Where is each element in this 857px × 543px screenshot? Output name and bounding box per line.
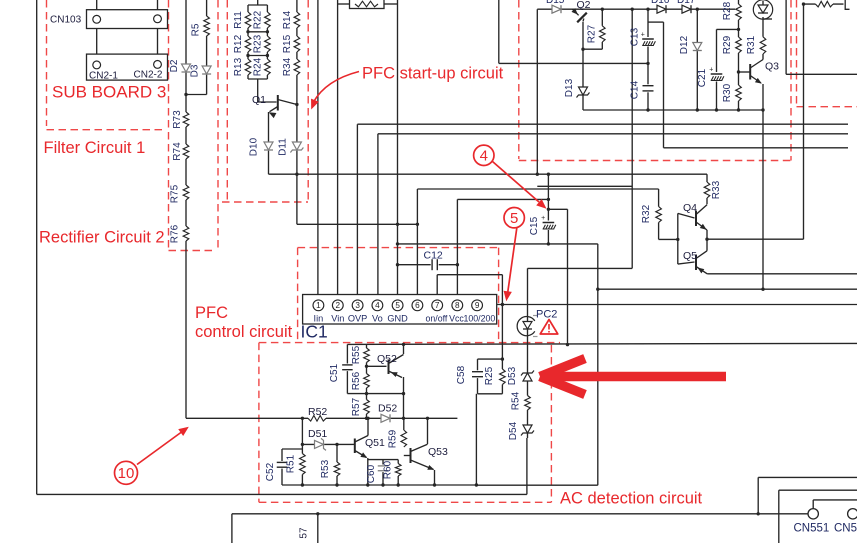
dashed PFC start-up box left edge: [226, 0, 228, 202]
node pin8 junction on C15 line: [547, 198, 550, 201]
svg-text:R33: R33: [711, 180, 722, 199]
svg-text:100/200: 100/200: [464, 314, 496, 324]
resistor R74: [183, 144, 190, 159]
dashed AC detection box bottom edge: [259, 501, 552, 503]
transistor Q4: [695, 211, 697, 227]
wire pin6 horizontal y=189 to R32: [417, 188, 658, 190]
resistor R5: [203, 16, 210, 36]
svg-text:PFC: PFC: [195, 304, 228, 322]
dashed far-right box left edge: [796, 0, 798, 107]
svg-text:R51: R51: [286, 454, 297, 473]
wire C21 vertical x=716.5: [716, 29, 718, 110]
svg-text:C60: C60: [366, 464, 377, 483]
wire rail r1 y=110: [583, 109, 763, 111]
svg-text:Vo: Vo: [372, 314, 383, 324]
dashed box Filter Circuit right edge: [168, 0, 170, 250]
dashed top-right box bottom edge: [519, 160, 791, 162]
svg-text:7: 7: [435, 301, 440, 310]
svg-text:+: +: [709, 66, 713, 73]
wire pin8 horizontal y=199: [457, 198, 548, 200]
node pin7/pin9 cross junction: [501, 303, 504, 306]
svg-text:5: 5: [395, 301, 400, 310]
svg-text:+: +: [541, 215, 545, 222]
wire CN103 to CN2 links: [96, 23, 98, 61]
svg-text:R60: R60: [383, 460, 394, 479]
svg-text:D53: D53: [507, 366, 518, 385]
wire C12 lead: [398, 264, 458, 266]
wire pin7 horizontal y=275: [437, 274, 502, 276]
resistor R76: [183, 226, 190, 241]
wire bottom connector horizontal y=514.5: [232, 513, 808, 515]
wire R28 jog to C21: [717, 28, 739, 30]
svg-text:IC1: IC1: [301, 322, 328, 342]
svg-text:5: 5: [510, 210, 518, 227]
wire vertical bus pin6: [416, 189, 418, 300]
wire mid horizontal y=186: [537, 185, 632, 187]
svg-text:R34: R34: [282, 57, 293, 76]
resistor R11: [245, 12, 252, 28]
svg-text:R55: R55: [351, 345, 362, 364]
svg-text:R74: R74: [172, 142, 183, 161]
transistor Q53: [410, 448, 412, 463]
dashed PFC start-up bottom edge: [222, 201, 308, 203]
wire Q53 collector riser: [427, 418, 429, 444]
wire bottom long horizontal to AC circuit: [37, 493, 527, 495]
wire AC bottom rail y=485: [282, 484, 476, 486]
resistor R13: [245, 59, 252, 75]
svg-text:PFC start-up circuit: PFC start-up circuit: [362, 65, 504, 83]
capacitor C52: [276, 461, 289, 469]
resistor R28: [735, 4, 742, 20]
svg-text:10: 10: [118, 465, 135, 482]
wire C13 right jog x=663: [648, 21, 664, 23]
svg-text:Vcc: Vcc: [449, 314, 464, 324]
svg-text:4: 4: [375, 301, 380, 310]
annotation circled 5 with arrow: [504, 208, 524, 228]
wire vertical bus pin8: [456, 199, 458, 300]
capacitor C15 electrolytic: [541, 221, 555, 231]
svg-text:6: 6: [415, 301, 420, 310]
pin 1 of IC1: [313, 300, 324, 311]
pin 5 of IC1: [392, 300, 403, 311]
wire Q52 emitter drop: [403, 377, 405, 418]
svg-text:CN103: CN103: [50, 15, 82, 26]
wire C13/C14 vertical x=648: [647, 9, 649, 110]
wire C52 leg: [281, 449, 283, 485]
wire vertical x=598 C15 branch down: [597, 244, 599, 485]
svg-text:D12: D12: [679, 35, 690, 54]
svg-text:CN551: CN551: [794, 523, 830, 535]
svg-text:R25: R25: [484, 366, 495, 385]
node D2/D3 junction: [184, 93, 187, 96]
diode D11 zener: [292, 142, 301, 150]
svg-text:Filter Circuit 1: Filter Circuit 1: [44, 139, 146, 157]
svg-text:R54: R54: [511, 391, 522, 410]
svg-text:C21: C21: [697, 68, 708, 87]
resistor R23: [264, 36, 271, 52]
wire PC2 vertical: [527, 268, 529, 438]
svg-text:R12: R12: [233, 34, 244, 53]
resistor R57: [363, 400, 370, 415]
svg-text:R53: R53: [320, 459, 331, 478]
diode D15 gray: [552, 5, 561, 13]
wire y=418 horizontal to AC detection: [186, 417, 457, 419]
pin 7 of IC1: [432, 300, 443, 311]
wire rail r3 y=134: [378, 133, 848, 135]
big red arrow pointing at D53: [540, 359, 585, 377]
diode D54 zener: [523, 425, 532, 433]
transistor Q3: [749, 64, 751, 80]
diode D16: [657, 5, 666, 13]
svg-text:R22: R22: [253, 10, 264, 29]
wire Q1 emitter down: [268, 112, 270, 174]
svg-text:C14: C14: [630, 80, 641, 99]
svg-text:R11: R11: [233, 11, 244, 29]
svg-text:C51: C51: [329, 363, 340, 382]
wire D51 node vertical x=302.4: [301, 418, 303, 485]
svg-text:8: 8: [455, 301, 460, 310]
resistor R22: [264, 12, 271, 28]
connector CN103 box: [87, 10, 168, 29]
wire vertical bus pin3: [356, 124, 358, 300]
svg-text:2: 2: [336, 301, 341, 310]
svg-text:Q53: Q53: [428, 446, 448, 458]
resistor R12: [245, 36, 252, 52]
svg-text:C12: C12: [424, 250, 443, 262]
diode D13 zener: [579, 87, 588, 95]
wire bottom box verticals: [231, 514, 233, 543]
svg-text:3: 3: [355, 301, 360, 310]
wire LED/R31 vertical x=763: [762, 19, 764, 60]
diode D2: [182, 64, 191, 72]
svg-text:R15: R15: [282, 34, 293, 53]
svg-text:on/off: on/off: [425, 314, 447, 324]
resistor R34: [293, 59, 300, 75]
wire D3/R5 branch vertical: [206, 0, 208, 88]
resistor R75: [183, 185, 190, 200]
wire C58 left leg down to rail: [475, 394, 477, 485]
svg-text:CN5: CN5: [834, 523, 857, 535]
wire Q4 collector/R33: [706, 174, 708, 204]
wire vertical x=567 down to AC rail: [567, 209, 569, 344]
svg-text:R31: R31: [746, 35, 757, 54]
wire Q4/Q5 base vertical: [677, 213, 679, 264]
wire Q5 emitter to y=274 rail: [707, 273, 857, 275]
svg-text:OVP: OVP: [348, 314, 367, 324]
svg-text:R59: R59: [388, 429, 399, 448]
wire R53 vertical: [336, 444, 338, 485]
svg-text:R14: R14: [282, 10, 293, 29]
dashed box Rectifier bottom edge: [169, 250, 215, 252]
svg-text:R52: R52: [308, 406, 327, 418]
svg-text:4: 4: [480, 148, 488, 165]
wire ground rail y=174: [269, 173, 708, 175]
pin 9 of IC1: [472, 300, 483, 311]
wire R55/R56/R57 vertical: [366, 344, 368, 418]
resistor R27: [599, 26, 606, 42]
capacitor C58: [471, 370, 484, 378]
diode D12 gray: [693, 43, 702, 51]
wire pin9 horizontal y=304.5 to right edge: [482, 304, 857, 306]
diode D10: [264, 142, 273, 150]
wire Q52 collector riser: [403, 344, 405, 354]
svg-text:CN2-2: CN2-2: [134, 70, 163, 81]
wire y=289 horizontal to right edge: [598, 288, 857, 290]
wire top-right resistor feed x=803.5: [803, 4, 805, 239]
wire C58 bracket: [501, 359, 503, 394]
resistor R59: [400, 430, 407, 447]
pin 4 of IC1: [372, 300, 383, 311]
svg-text:D15: D15: [546, 0, 565, 6]
svg-text:D17: D17: [677, 0, 696, 6]
svg-text:9: 9: [475, 301, 480, 310]
wire Q51 emitter drop: [367, 458, 369, 485]
wire D54 to bottom rail vertical: [526, 438, 528, 494]
svg-text:C52: C52: [265, 462, 276, 481]
optocoupler PC2: [517, 317, 535, 336]
svg-text:Vin: Vin: [331, 314, 344, 324]
wire R73-R76 chain vertical: [185, 95, 187, 419]
svg-text:R30: R30: [722, 83, 733, 102]
wire y=477 to right edge: [758, 476, 857, 478]
svg-text:PC2: PC2: [536, 309, 557, 321]
resistor R30: [735, 85, 742, 101]
transistor Q2: [577, 13, 587, 23]
wire rail r4 y=148: [664, 147, 849, 149]
wire C51 leg: [346, 344, 348, 393]
dashed AC detection box top edge: [259, 342, 560, 344]
svg-text:Q1: Q1: [252, 94, 266, 106]
wire D11 lower branch: [296, 174, 298, 224]
diode D52: [381, 414, 390, 422]
wire y=74 to right edge: [786, 73, 857, 75]
diode D51 zener: [315, 440, 324, 448]
wire vertical bus pin1: [317, 0, 319, 300]
wire left border vertical: [36, 0, 38, 494]
wire rail r2 y=124: [357, 123, 848, 125]
svg-text:D2: D2: [169, 59, 180, 72]
svg-text:R13: R13: [233, 57, 244, 76]
diode D17: [682, 5, 691, 13]
wire PC2 top horizontal y=268: [528, 267, 633, 269]
pin 6 of IC1: [412, 300, 423, 311]
svg-text:C58: C58: [456, 365, 467, 384]
resistor R15: [293, 36, 300, 52]
capacitor C51: [341, 364, 354, 372]
pin 2 of IC1: [332, 300, 343, 311]
wire vertical bus pin4: [377, 134, 379, 301]
dashed box SUB BOARD 3 bottom edge: [47, 129, 167, 131]
transistor Q52: [388, 360, 390, 375]
connector CN2 box: [87, 54, 168, 80]
wire AC top rail y=344.6: [347, 343, 857, 344]
svg-text:AC detection circuit: AC detection circuit: [560, 490, 703, 508]
resistor R51: [299, 454, 306, 475]
resistor R24: [264, 59, 271, 75]
resistor network column links: [248, 4, 267, 6]
wire y=490 to right edge: [779, 489, 857, 491]
svg-text:D16: D16: [651, 0, 670, 6]
dashed top-right box right edge: [790, 0, 792, 161]
resistor R56: [363, 374, 370, 389]
capacitor C14: [642, 84, 655, 92]
pin 8 of IC1: [452, 300, 463, 311]
wire CN551 riser: [757, 512, 760, 515]
wire boxed resistor leads: [338, 3, 350, 5]
wire Q53 emitter drop: [434, 470, 436, 485]
diode D53 zener: [523, 373, 532, 381]
resistor R55: [363, 348, 370, 363]
wire C15 vertical x=548: [547, 174, 549, 244]
svg-text:R27: R27: [587, 24, 598, 43]
wire pin7 branch vertical x=502: [501, 275, 503, 359]
wire Q4-Q5 mid vertical: [706, 230, 708, 251]
warning triangle: [540, 320, 558, 335]
svg-text:R76: R76: [170, 224, 181, 243]
wire vertical bus pin2: [337, 0, 339, 300]
svg-text:R29: R29: [722, 35, 733, 54]
transistor Q1: [277, 95, 279, 111]
wire Q4 base lead: [678, 213, 695, 218]
resistor at top-right edge: [816, 1, 834, 8]
connector CN551 circle: [808, 509, 818, 519]
svg-text:CN2-1: CN2-1: [89, 70, 118, 81]
IC1 dashed-box internals: black IC box: [303, 295, 497, 325]
connector circle right edge bottom: [848, 509, 857, 519]
svg-text:D10: D10: [249, 137, 260, 156]
resistor R54: [524, 396, 531, 411]
wire C15 bottom horizontal y=244: [398, 243, 598, 245]
wire top-right resistor wire y=4: [804, 3, 844, 5]
wire column3 vertical: [296, 0, 298, 174]
svg-text:Q4: Q4: [683, 202, 697, 214]
resistor R53: [334, 462, 341, 476]
svg-text:R57: R57: [351, 397, 362, 416]
svg-text:R75: R75: [170, 184, 181, 203]
wire supply right vertical x=632: [631, 9, 633, 268]
svg-text:R73: R73: [172, 110, 183, 129]
wire D12 vertical x=697: [696, 9, 698, 110]
svg-text:control circuit: control circuit: [195, 323, 293, 341]
svg-text:D11: D11: [278, 138, 289, 156]
capacitor C21 electrolytic: [710, 72, 724, 82]
svg-text:Q2: Q2: [577, 0, 591, 11]
wire vertical bus pin5: [397, 0, 399, 300]
svg-text:D13: D13: [564, 78, 575, 97]
svg-text:C15: C15: [529, 216, 540, 235]
dashed AC detection box right edge: [550, 345, 552, 502]
transistor Q5: [695, 255, 697, 271]
resistor R60: [395, 464, 402, 477]
svg-text:Q52: Q52: [377, 353, 397, 365]
svg-text:R24: R24: [253, 57, 264, 76]
svg-text:D51: D51: [308, 428, 327, 440]
capacitor C60 gray: [377, 465, 390, 473]
svg-text:Rectifier Circuit 2: Rectifier Circuit 2: [39, 229, 165, 247]
wire D2 branch vertical: [185, 0, 187, 95]
resistor R29: [735, 37, 742, 53]
LED PC1 circle: [753, 0, 772, 19]
resistor R33: [704, 182, 711, 198]
svg-text:Q51: Q51: [365, 437, 385, 449]
wire R59 vertical: [403, 418, 405, 447]
wire C60/R60 bracket: [368, 459, 398, 461]
wire C15 jog to x=567: [548, 208, 567, 210]
svg-text:R32: R32: [641, 204, 652, 223]
wire Q2 emitter feed vertical x=537: [536, 9, 538, 174]
svg-text:R23: R23: [253, 34, 264, 53]
transistor Q51: [354, 439, 356, 454]
dashed far-right horizontal: [797, 106, 857, 108]
annotation circled 4 with arrow: [474, 145, 494, 165]
resistor R32: [655, 207, 662, 223]
diode D3: [202, 66, 211, 74]
wire y=63 horizontal from x=499: [498, 0, 500, 63]
wire Q3 emitter vertical down to y=289: [762, 84, 764, 289]
svg-text:GND: GND: [387, 314, 408, 324]
dashed AC detection box left edge: [258, 343, 260, 503]
svg-text:Q3: Q3: [765, 61, 779, 73]
dashed box SUB BOARD 3 left edge: [46, 0, 48, 126]
wire Q51 collector riser: [367, 418, 369, 435]
svg-text:57: 57: [299, 527, 310, 539]
wire Q5 base lead: [678, 262, 695, 264]
resistor R31: [760, 37, 767, 54]
svg-text:R56: R56: [351, 371, 362, 390]
svg-text:R28: R28: [722, 1, 733, 20]
svg-text:D54: D54: [508, 421, 519, 440]
resistor R52 horizontal: [308, 415, 326, 422]
wire far right vertical x=786: [785, 0, 787, 74]
resistor R14: [293, 12, 300, 28]
wire D51 lead: [302, 443, 352, 445]
wire vertical bus pin7: [436, 275, 438, 301]
wire Q52 base lead: [367, 365, 387, 367]
resistor R25: [499, 369, 506, 385]
wire y=239 Q4 emitter to x=803: [707, 238, 803, 240]
dashed vertical x=308: [307, 0, 309, 202]
dashed box Rectifier right edge: [217, 0, 219, 251]
component top-right connector bracket: [845, 0, 849, 9]
svg-text:C13: C13: [630, 27, 641, 46]
wire y=500 CN551 stub: [813, 499, 857, 501]
svg-text:D52: D52: [378, 403, 397, 415]
wire R28/R29/R30 vertical x=738.5: [738, 0, 740, 110]
resistor boxed at top: [350, 0, 385, 9]
wire R32 vertical: [658, 189, 660, 239]
svg-text:R5: R5: [191, 23, 202, 36]
wire CN103 stubs: [96, 0, 98, 16]
wire D13 vertical x=583: [582, 22, 584, 110]
wire top supply y=9: [537, 8, 738, 10]
wire y=485 to AC rail: [476, 484, 597, 486]
annotation circled 10 with arrow: [115, 461, 138, 484]
dashed IC1 control box: [297, 248, 299, 341]
capacitor C13 electrolytic: [641, 37, 655, 47]
capacitor C12: [431, 258, 439, 271]
dashed top-right box left edge: [518, 0, 520, 159]
svg-text:SUB BOARD 3: SUB BOARD 3: [52, 83, 166, 102]
svg-text:+: +: [641, 31, 645, 38]
wire R27 path: [601, 9, 603, 49]
pin 3 of IC1: [352, 300, 363, 311]
svg-text:D3: D3: [190, 64, 201, 77]
svg-text:1: 1: [316, 301, 321, 310]
svg-text:Q5: Q5: [683, 250, 697, 262]
resistor R73: [183, 112, 190, 127]
